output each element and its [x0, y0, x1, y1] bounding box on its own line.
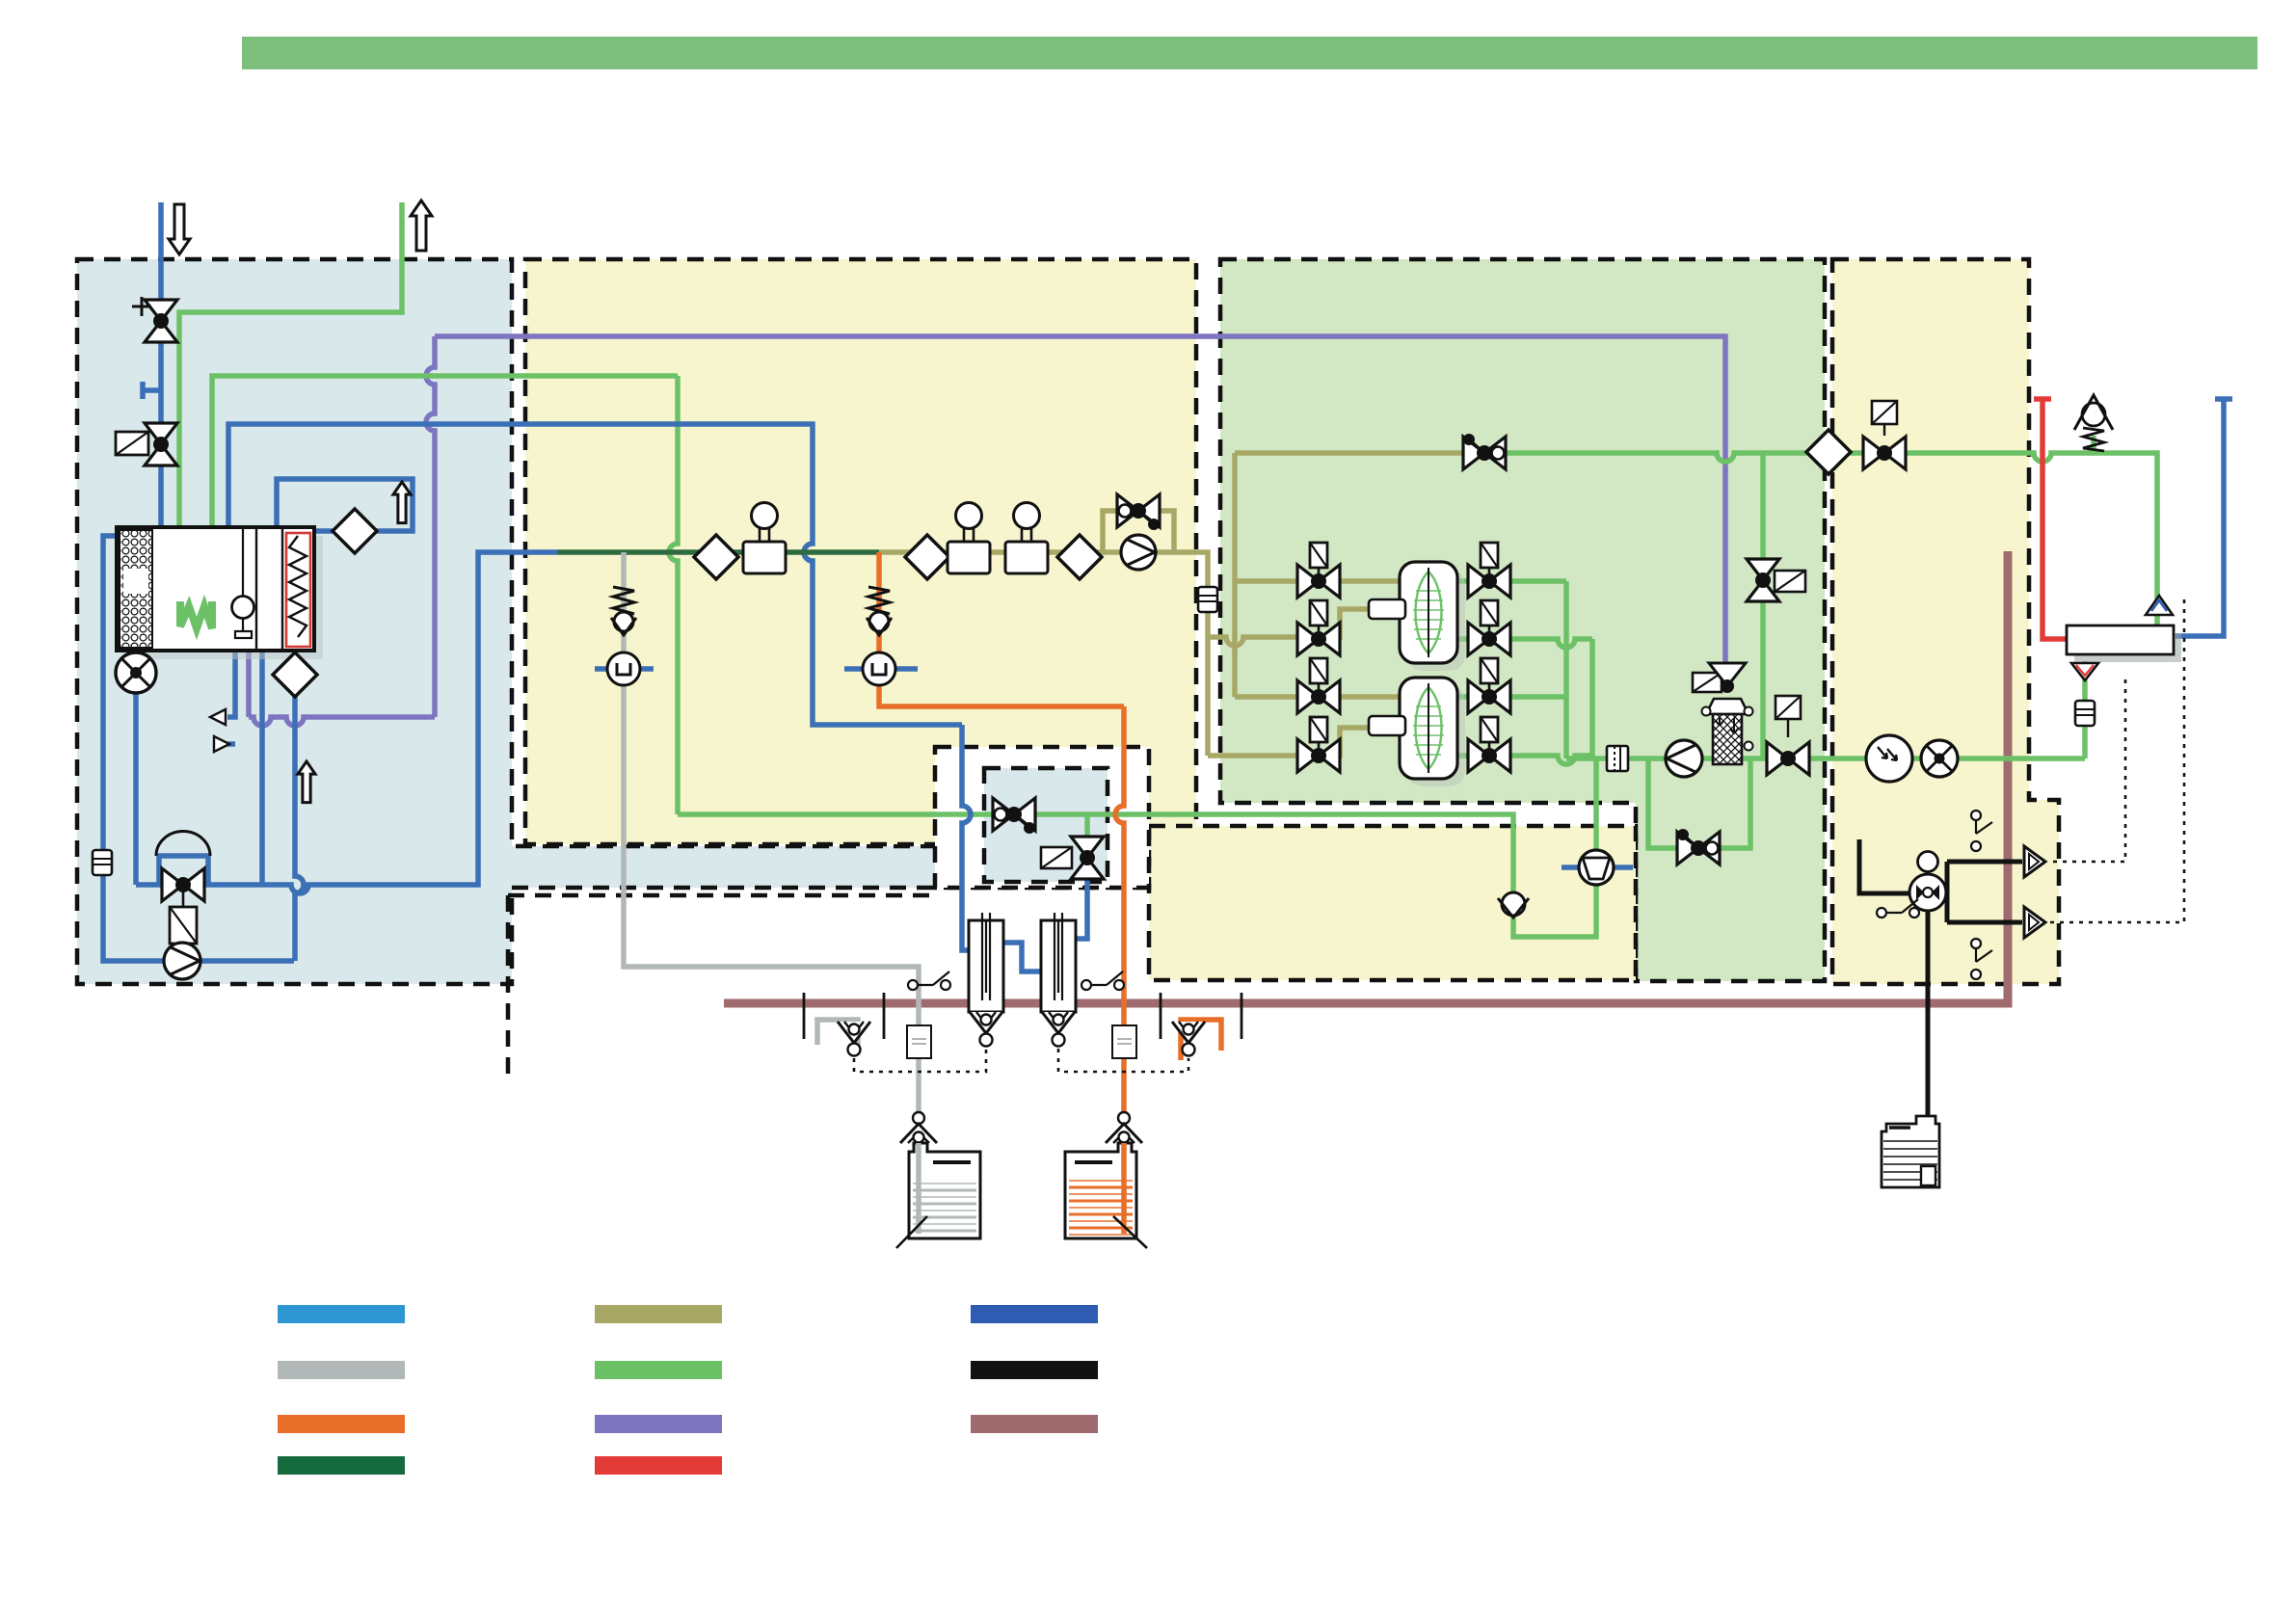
filter diamond D3: [1057, 535, 1102, 579]
pump P2 main distribution: [1121, 535, 1156, 570]
valve V2 solenoid on AHU supply: [145, 423, 177, 444]
wire: blue link between columns: [999, 943, 1045, 971]
tank inlet triangle blue: [2146, 596, 2173, 615]
AHU air handling unit box: [125, 536, 323, 659]
wire: red make-up line: [2042, 399, 2067, 639]
wire: light-green heating supply from AHU: [179, 202, 402, 603]
filter diamond AHU right: [333, 509, 377, 553]
3-way mixing valve with dome: [156, 832, 210, 856]
exhaust fan circle-cross: [116, 652, 156, 693]
small up arrow riser: [298, 761, 315, 803]
AHU heating coil green: [180, 601, 212, 628]
region: yellow zone C lower band: [1149, 826, 1636, 980]
safety valve: [2083, 428, 2104, 451]
legend color bars: [278, 1305, 405, 1323]
tundish right black box: [1161, 993, 1241, 1039]
lever switches right: [1971, 811, 1981, 820]
tank heat exchanger white: [2074, 633, 2181, 662]
region: chiller green zone: [1220, 259, 1825, 981]
3-way valve with actuator on main: [1787, 718, 1789, 737]
chiller outlet valve row 2: [1488, 625, 1491, 633]
wire: dotted signal lines tank to meter: [2047, 599, 2184, 922]
filter diamond D1 main line: [694, 535, 738, 579]
region: hydraulic yellow zone A: [525, 259, 1196, 844]
flow indicator: [1866, 735, 1912, 782]
wire: blue AHU supply riser top: [158, 202, 164, 527]
wire: light-green heating return / free cooling line: [212, 376, 678, 603]
wire: purple expansion line from AHU to pressure unit: [246, 648, 252, 717]
check valve gray: [613, 587, 634, 614]
chiller inlet valve row 1: [1318, 568, 1321, 575]
instrument on olive drop: [1198, 587, 1217, 612]
chiller inlet valve row 4: [1318, 742, 1321, 750]
dosing pump gray: [595, 666, 654, 672]
wire: green safety valve stub: [2091, 436, 2096, 453]
funnel above canister 1: [913, 1112, 924, 1124]
valve bypass olive: [1117, 494, 1138, 527]
pump condenser yellowC: [1562, 865, 1633, 870]
region: AHU light-blue zone: [77, 259, 1149, 984]
wire: blue AHU bottom stubs: [259, 648, 265, 885]
wire: blue AHU left loop with pump: [103, 536, 294, 961]
wire: blue mixing line y918: [133, 648, 139, 885]
evaporator heat exchanger 1: [1407, 570, 1465, 671]
region: yellow zone B right: [1832, 259, 2059, 984]
label box gray line: [907, 1025, 931, 1058]
wire: blue city water inlet right: [2176, 399, 2224, 636]
label box orange line: [1112, 1025, 1136, 1058]
canister 1 gray: [909, 1143, 980, 1238]
wire: blue AHU right vent loop: [277, 479, 413, 531]
wire: olive chiller row 1: [1235, 578, 1400, 584]
chiller outlet valve row 4: [1488, 742, 1491, 750]
valve free-cooling manual: [993, 798, 1014, 831]
heat meter circle with sensors: [1918, 852, 1938, 872]
funnel above canister 2: [1118, 1112, 1130, 1124]
small up arrow vent: [393, 482, 411, 523]
region: small light-blue free-cooling box: [984, 768, 1108, 882]
wire: dotted signal lines dosing left: [854, 1049, 986, 1072]
evaporator heat exchanger 2: [1407, 685, 1465, 786]
signal arrows right: [2024, 846, 2045, 877]
tundish left black box: [804, 993, 884, 1039]
wire: olive chiller row 4: [1208, 728, 1400, 756]
AHU cooling coil: [286, 533, 310, 647]
lever switch columns left: [908, 980, 918, 990]
wire: blue from free-cooling 3-way to column 2: [1068, 872, 1087, 939]
flow marker triangles: [210, 709, 226, 725]
expansion vessel symbol: [93, 850, 112, 875]
wire: green stub to free-cooling 3-way: [1084, 814, 1090, 838]
wire: green chiller outlet row 3: [1457, 694, 1566, 700]
header green bar: [242, 37, 2257, 69]
canister 3 heat meter black: [1882, 1116, 1939, 1187]
bypass valve with circle: [1677, 832, 1698, 865]
lever switch columns right: [1081, 980, 1091, 990]
wire: blue AHU top return to distribution: [228, 424, 962, 725]
check valve free cooling: [1502, 892, 1525, 916]
wire: blue 3-way bypass loop: [159, 856, 208, 885]
wire: orange tundish: [1181, 1020, 1221, 1060]
filter diamond AHU bottom: [273, 652, 317, 697]
dosing pump orange: [844, 666, 918, 672]
wire: green chilled water main: [1566, 756, 2085, 761]
evaporator probe 2: [1369, 716, 1405, 735]
region: lower white dashed box: [508, 895, 930, 1079]
fan coil circle: [1921, 740, 1958, 777]
wire: green chiller outlet row 1: [1457, 578, 1566, 584]
AHU filter section: [120, 530, 152, 648]
chiller outlet valve row 3: [1488, 683, 1491, 691]
pump chilled water: [1666, 740, 1702, 777]
changeover valve olive-green top: [1463, 437, 1484, 469]
wire: olive chiller row 3: [1235, 694, 1400, 700]
wire: olive main line to chillers: [879, 552, 1208, 756]
dirt separator with purple pressure unit: [1693, 673, 1722, 692]
ion exchanger column 2: [1041, 920, 1076, 1012]
wire: blue riser from pump line to AHU bottom diamond: [295, 651, 304, 961]
wire: green chiller collector 2: [1589, 639, 1595, 758]
wire: orange dosing line: [879, 552, 1124, 706]
control instrument I1: [743, 542, 786, 573]
instrument below tank: [2075, 701, 2095, 726]
region: white box around free-cooling valves: [935, 747, 1149, 888]
evaporator probe 1: [1369, 599, 1405, 619]
big up arrow exhaust air: [411, 200, 432, 251]
ion exchanger column 1: [969, 920, 1003, 1012]
wire: green top distribution line: [1484, 453, 2157, 625]
wire: olive pump bypass: [1103, 511, 1174, 552]
chiller inlet valve row 2: [1318, 625, 1321, 633]
wire: green pump bypass loop: [1648, 758, 1750, 848]
valve V1 manual on AHU supply: [145, 300, 177, 321]
wire: olive chiller feed vertical: [1232, 453, 1238, 697]
control instrument I3: [1005, 542, 1048, 573]
check valve orange: [868, 587, 890, 614]
pump main circulation: [164, 943, 200, 979]
wire: mauve drain main line: [724, 551, 2008, 1003]
wire: green chiller outlet row 2: [1457, 639, 1592, 648]
solenoid 3-way on riser: [1747, 559, 1779, 580]
big down arrow outside air: [169, 204, 190, 254]
control instrument I2: [948, 542, 990, 573]
wire: blue tick stub: [143, 387, 161, 393]
wire: dark-green main supply line: [557, 549, 879, 555]
wire: olive top run to changeover valve: [1235, 450, 1484, 456]
wire: olive chiller row 2: [1208, 609, 1400, 646]
chiller outlet valve row 1: [1488, 568, 1491, 575]
wire: blue drop to ion exchanger column 1: [962, 725, 974, 950]
wire: gray dosing line: [624, 552, 919, 1234]
filter diamond right: [1806, 430, 1851, 474]
wire: black heat meter piping: [1859, 839, 1910, 893]
wire: green riser to main: [1760, 453, 1766, 758]
wire: green chiller collector 1: [1563, 581, 1569, 758]
coupler instrument on main: [1607, 746, 1628, 771]
drain funnel column 1: [970, 1012, 1002, 1033]
canister 2 orange: [1065, 1143, 1136, 1238]
wire: gray tundish: [817, 1020, 858, 1045]
valve with actuator right: [1883, 424, 1885, 436]
3-way solenoid valve free-cooling: [1071, 837, 1104, 858]
tank outlet triangle red: [2071, 663, 2098, 680]
drain funnel column 2: [1042, 1012, 1075, 1033]
AHU fan section dividers: [256, 527, 282, 649]
chiller inlet valve row 3: [1318, 683, 1321, 691]
wire: green chiller outlet row 4: [1457, 756, 1592, 764]
AHU fan: [242, 527, 244, 597]
wire: dotted signal lines dosing right: [1058, 1049, 1188, 1072]
filter diamond D2: [905, 535, 949, 579]
wire: green tank outlet: [2082, 661, 2088, 758]
